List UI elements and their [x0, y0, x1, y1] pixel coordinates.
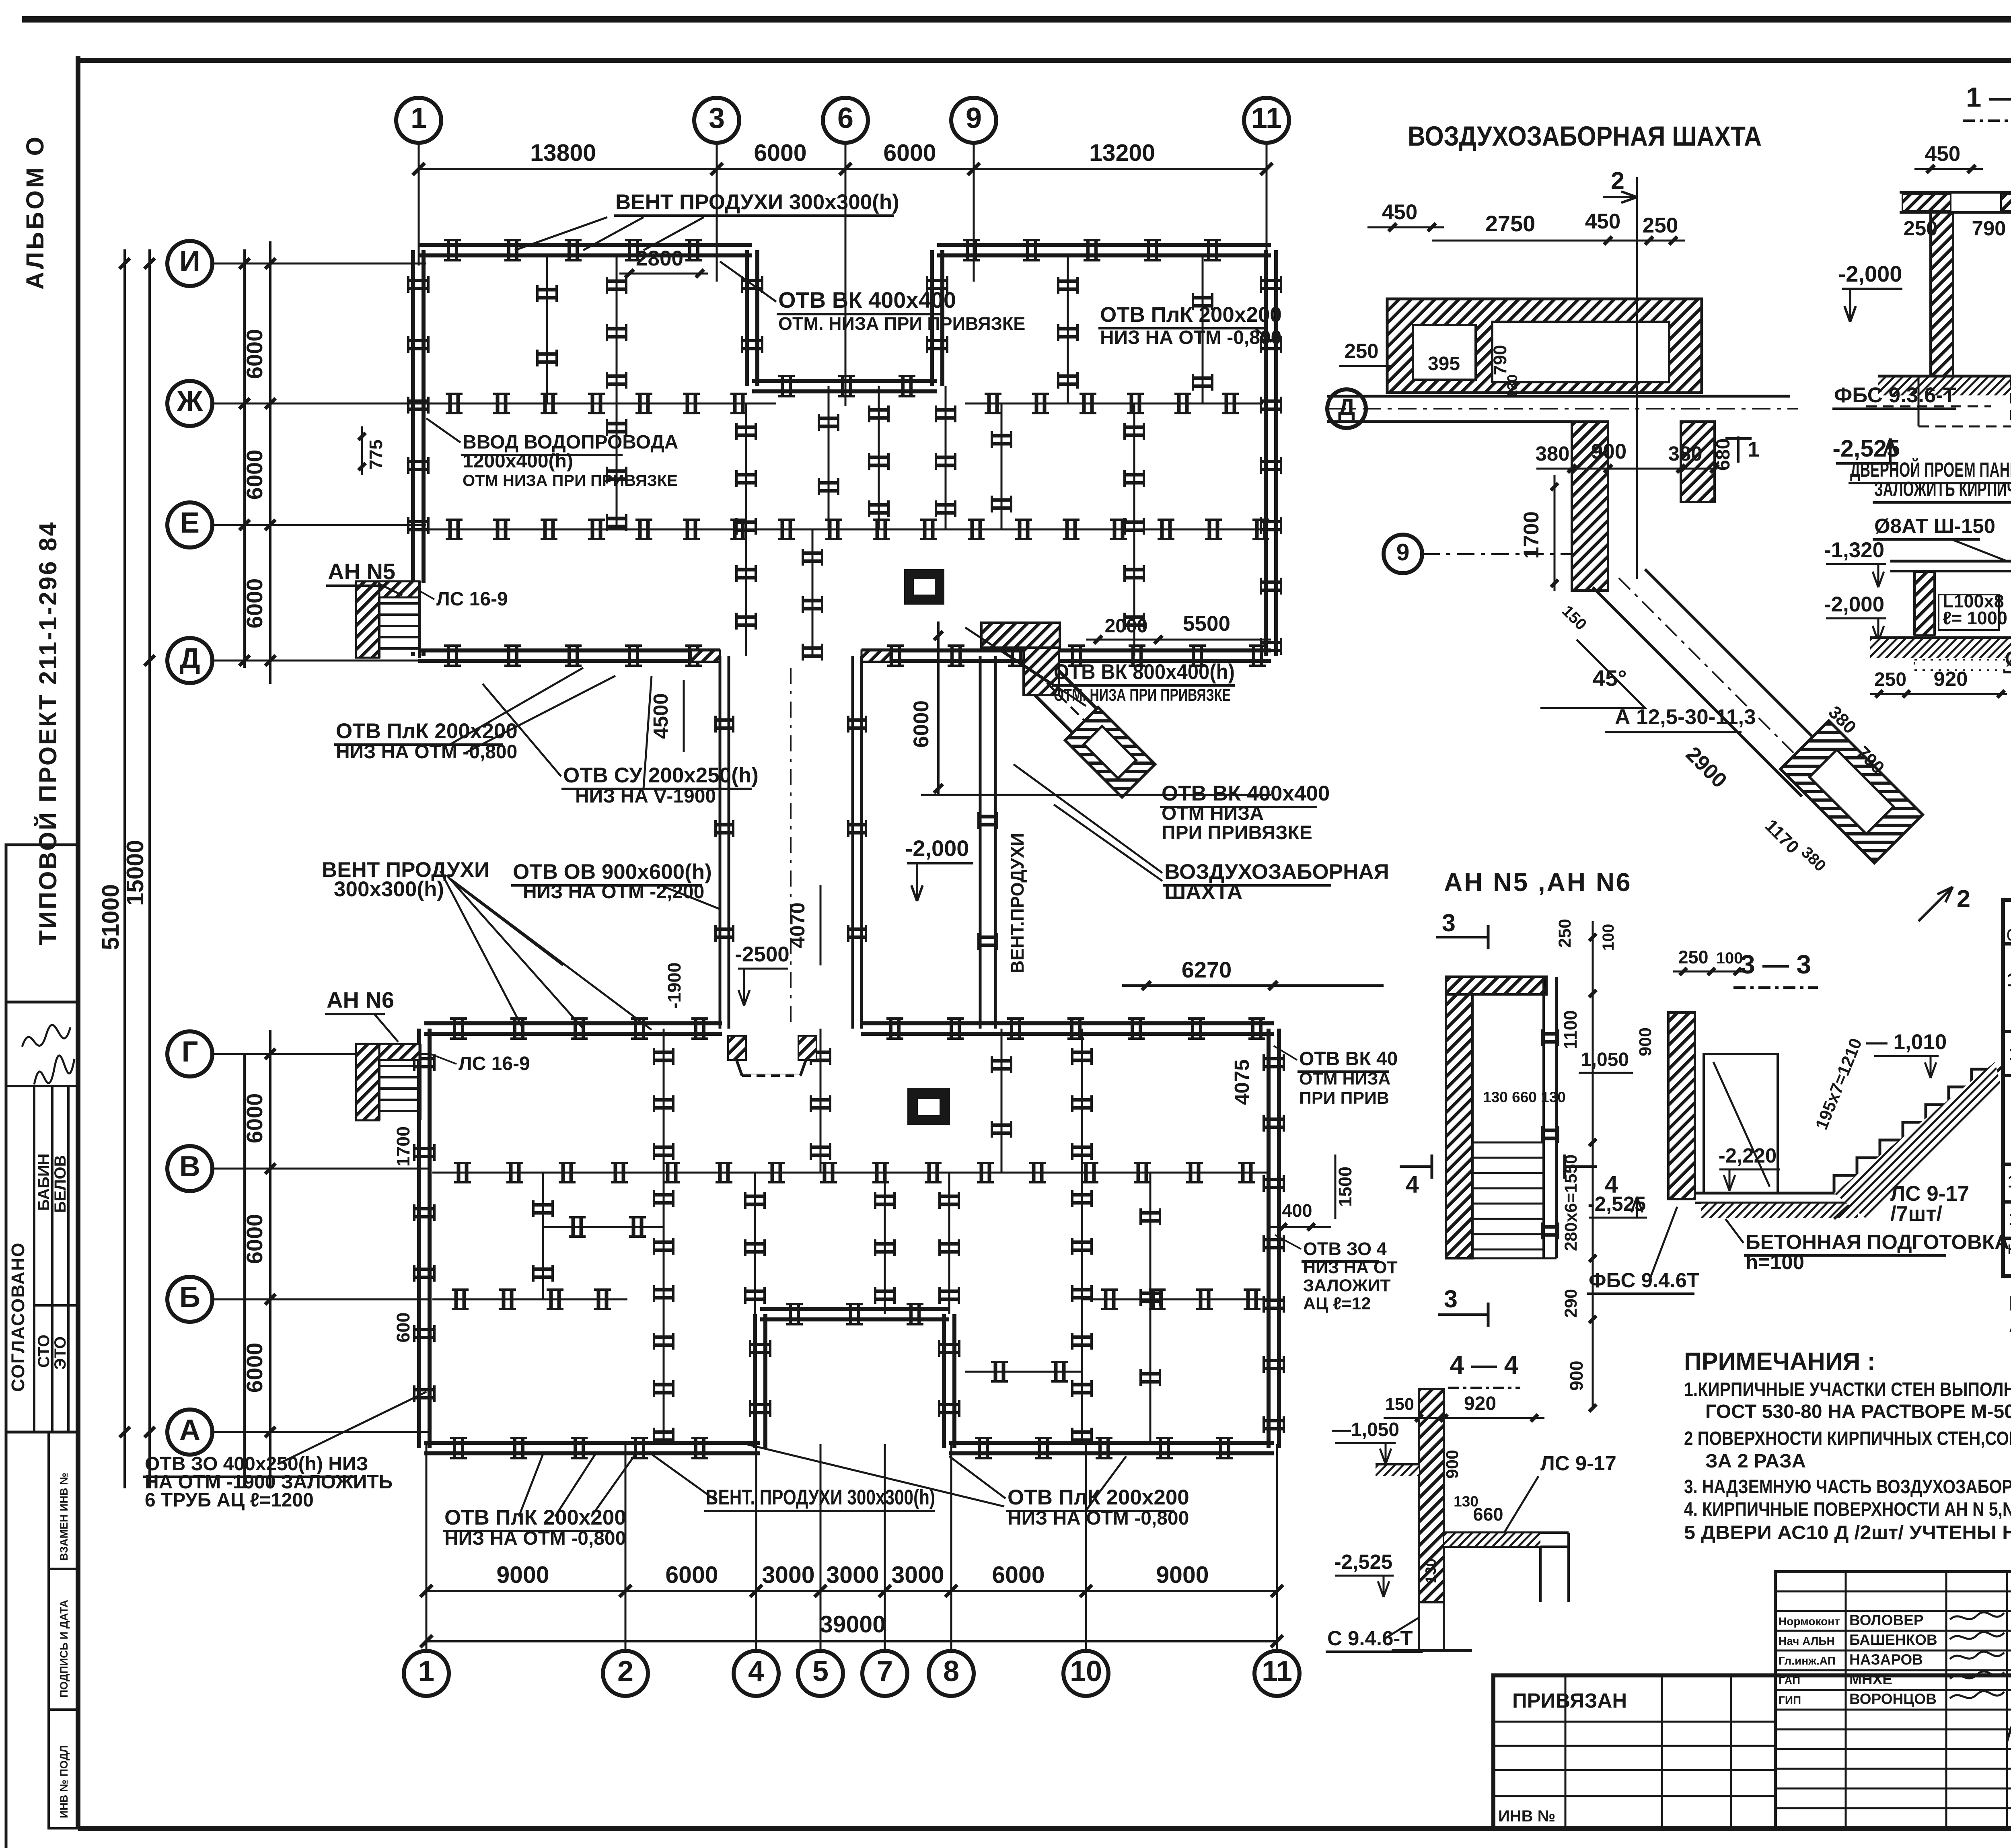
svg-text:600: 600 — [393, 1312, 413, 1342]
section 1-1 ground hatch — [1878, 376, 2011, 395]
lower building interior wall axis V — [432, 1172, 1267, 1174]
svg-text:1.138-10 в.1: 1.138-10 в.1 — [2008, 1172, 2011, 1192]
svg-text:-2,525: -2,525 — [1334, 1550, 1393, 1573]
svg-text:380: 380 — [1668, 442, 1702, 465]
svg-text:НАСТ. ПРОЕКТ: НАСТ. ПРОЕКТ — [2008, 1242, 2011, 1257]
svg-text:-2,000: -2,000 — [1824, 593, 1884, 616]
svg-text:300х300(h): 300х300(h) — [334, 877, 444, 901]
lower building left wall — [417, 1029, 421, 1118]
upper building top notch walls — [745, 250, 749, 386]
svg-text:БАШЕНКОВ: БАШЕНКОВ — [1849, 1632, 1937, 1648]
svg-text:ОТВ ВК 400х400: ОТВ ВК 400х400 — [1162, 782, 1330, 805]
svg-text:ИНВ № ПОДЛ: ИНВ № ПОДЛ — [58, 1745, 70, 1818]
svg-text:1,050: 1,050 — [1581, 1049, 1629, 1070]
svg-text:250: 250 — [1874, 669, 1906, 690]
left dim line upper second — [269, 241, 271, 684]
svg-text:6000: 6000 — [883, 140, 936, 166]
plan dim 6000 vertical mid — [937, 621, 940, 795]
table header row line — [2003, 942, 2011, 946]
svg-text:ОТМ. НИЗА ПРИ ПРИВЯЗКЕ: ОТМ. НИЗА ПРИ ПРИВЯЗКЕ — [778, 313, 1025, 334]
section 1-1 left pier — [1931, 212, 1953, 376]
upper building bottom wall hatched patches — [691, 650, 720, 662]
section 4-4 slab — [1444, 1531, 1569, 1534]
axis circles left and axis lines — [167, 241, 212, 286]
svg-text:9000: 9000 — [1156, 1562, 1209, 1588]
svg-text:1 — 1: 1 — 1 — [1966, 82, 2011, 113]
section 3-3 slab under — [1695, 1192, 1866, 1195]
lower building bottom notch walls — [753, 1314, 757, 1448]
svg-text:ЭТО: ЭТО — [51, 1336, 69, 1370]
svg-text:6000: 6000 — [242, 1093, 267, 1144]
svg-text:1200х400(h): 1200х400(h) — [463, 451, 573, 472]
svg-text:395: 395 — [1428, 353, 1460, 375]
svg-text:А: А — [179, 1414, 200, 1446]
svg-text:6000: 6000 — [242, 578, 267, 629]
svg-text:Б: Б — [179, 1281, 200, 1313]
svg-text:СТО: СТО — [35, 1335, 53, 1368]
svg-text:И: И — [179, 245, 200, 278]
svg-text:ПРИ ПРИВЯЗКЕ: ПРИ ПРИВЯЗКЕ — [1162, 822, 1312, 844]
svg-text:2800: 2800 — [636, 247, 683, 270]
svg-text:9: 9 — [966, 102, 982, 134]
svg-text:2: 2 — [1957, 885, 1970, 912]
svg-text:6000: 6000 — [242, 450, 267, 500]
svg-text:6000: 6000 — [909, 700, 933, 748]
stair section marker 4 right — [1565, 1165, 1597, 1168]
svg-text:1: 1 — [418, 1655, 434, 1687]
svg-text:250: 250 — [1903, 217, 1937, 240]
svg-text:ВЗАМЕН ИНВ №: ВЗАМЕН ИНВ № — [58, 1473, 70, 1561]
staff big signature squiggle — [2007, 1660, 2011, 1742]
upper building dark shaft block — [904, 569, 944, 605]
svg-text:ОТВ ЗО 4: ОТВ ЗО 4 — [1303, 1239, 1387, 1259]
svg-text:ПРИМЕЧАНИЯ :: ПРИМЕЧАНИЯ : — [1684, 1348, 1875, 1375]
svg-text:ЗАЛОЖИТ: ЗАЛОЖИТ — [1303, 1276, 1391, 1295]
svg-text:ОТВ СУ 200х250(h): ОТВ СУ 200х250(h) — [563, 763, 759, 787]
svg-text:250: 250 — [1643, 214, 1678, 237]
svg-text:39000: 39000 — [820, 1611, 886, 1638]
plan shaft hatched top band — [981, 623, 1060, 648]
svg-text:7: 7 — [877, 1655, 893, 1687]
svg-text:790: 790 — [1972, 217, 2006, 240]
bottom dimension line 1 — [426, 1590, 1277, 1592]
svg-text:6000: 6000 — [665, 1562, 718, 1588]
svg-text:1: 1 — [1748, 438, 1759, 461]
axis line 11 top — [1266, 142, 1268, 265]
upper building top wall — [418, 243, 752, 247]
svg-text:ВОРОНЦОВ: ВОРОНЦОВ — [1849, 1691, 1937, 1707]
svg-text:ФБС 9.4.6Т: ФБС 9.4.6Т — [1589, 1269, 1699, 1292]
stair plan steps — [1472, 1142, 1544, 1144]
lower building dark shaft block — [907, 1088, 950, 1125]
svg-text:НИЗ НА ОТМ -0,800: НИЗ НА ОТМ -0,800 — [336, 741, 517, 763]
corridor west wall — [719, 656, 722, 1029]
frame top line — [78, 58, 2011, 63]
svg-text:ГОСТ 530-80 НА РАСТВОРЕ М-50: ГОСТ 530-80 НА РАСТВОРЕ М-50 — [1705, 1401, 2011, 1422]
svg-text:ГИП: ГИП — [1779, 1694, 1801, 1706]
plan shaft end box — [1065, 707, 1155, 797]
svg-text:НИЗ НА ОТ: НИЗ НА ОТ — [1303, 1258, 1398, 1277]
svg-text:6000: 6000 — [242, 1214, 267, 1264]
svg-text:900: 900 — [1636, 1027, 1655, 1056]
svg-text:1.055.1-1: 1.055.1-1 — [2009, 1208, 2011, 1229]
stair section marker 4 left — [1400, 1165, 1432, 1168]
svg-text:920: 920 — [1464, 1393, 1496, 1414]
svg-text:ОБОЗНАЧЕНИЕ: ОБОЗНАЧЕНИЕ — [2007, 926, 2011, 944]
svg-text:1700: 1700 — [393, 1126, 413, 1167]
svg-text:h=100: h=100 — [1746, 1251, 1804, 1274]
svg-text:Нач АЛЬН: Нач АЛЬН — [1779, 1635, 1835, 1647]
svg-text:130 660 130: 130 660 130 — [1483, 1089, 1566, 1105]
plan shaft hatched bend — [1024, 648, 1059, 695]
svg-text:ВВОД ВОДОПРОВОДА: ВВОД ВОДОПРОВОДА — [463, 432, 678, 453]
svg-text:250: 250 — [1555, 919, 1575, 948]
stamp box inv n podl — [49, 1710, 78, 1828]
axis circles bottom — [404, 1651, 449, 1696]
svg-text:4500: 4500 — [649, 693, 672, 739]
shaft vertical duct — [1572, 422, 1608, 591]
svg-text:130: 130 — [1505, 375, 1520, 398]
upper building right wall — [1264, 250, 1268, 656]
svg-text:3000: 3000 — [826, 1562, 879, 1588]
basement long wall — [1890, 560, 2011, 563]
svg-text:ОТВ ВК 40: ОТВ ВК 40 — [1299, 1048, 1398, 1070]
shaft axis circle D — [1327, 389, 1366, 428]
lower building interior wall axis B segments — [432, 1299, 627, 1301]
svg-text:6: 6 — [837, 102, 853, 134]
svg-text:5: 5 — [812, 1655, 829, 1687]
svg-text:ЛС 16-9: ЛС 16-9 — [459, 1053, 530, 1074]
svg-text:3: 3 — [1442, 909, 1456, 936]
svg-text:ИНВ №: ИНВ № — [1498, 1807, 1555, 1825]
svg-text:-2500: -2500 — [735, 943, 790, 966]
svg-text:4 — 4: 4 — 4 — [1450, 1350, 1519, 1379]
svg-text:Е: Е — [180, 507, 199, 539]
svg-text:680: 680 — [1713, 438, 1734, 471]
section 3-3 wall — [1668, 1012, 1695, 1199]
svg-text:ВОЗДУХОЗАБОРНАЯ ШАХТА: ВОЗДУХОЗАБОРНАЯ ШАХТА — [1408, 121, 1762, 152]
axis circles top — [396, 98, 441, 143]
svg-text:Гл.инж.АП: Гл.инж.АП — [1779, 1655, 1836, 1667]
plan vent duct vertical — [979, 656, 982, 1029]
lower building top wall — [424, 1021, 722, 1025]
svg-text:ВЕНТ. ПРОДУХИ 300х300(h): ВЕНТ. ПРОДУХИ 300х300(h) — [706, 1486, 935, 1509]
svg-text:3: 3 — [1444, 1285, 1458, 1313]
svg-text:ОТВ ВК 800х400(h): ОТВ ВК 800х400(h) — [1054, 660, 1235, 684]
svg-text:11: 11 — [1251, 102, 1282, 134]
svg-text:НИЗ НА ОТМ -0,800: НИЗ НА ОТМ -0,800 — [1100, 327, 1281, 348]
svg-text:ОТВ ПлК 200х200: ОТВ ПлК 200х200 — [444, 1506, 626, 1529]
shaft corridor centerline — [1327, 408, 1798, 410]
upper building left wall — [411, 250, 415, 583]
svg-text:В: В — [179, 1150, 200, 1183]
stair section marker 3 bottom — [1438, 1313, 1488, 1316]
svg-text:БЕТОННАЯ ПОДГОТОВКА: БЕТОННАЯ ПОДГОТОВКА — [1746, 1231, 2009, 1253]
axis line 9 top — [973, 169, 975, 282]
svg-text:920: 920 — [1933, 667, 1968, 690]
top dimension line — [419, 168, 1267, 170]
upper building stair AN N5 — [356, 581, 379, 658]
svg-text:380: 380 — [1535, 442, 1569, 465]
svg-text:13200: 13200 — [1089, 140, 1155, 166]
axis line 3 top — [716, 169, 718, 282]
title block staff table — [1775, 1572, 2011, 1828]
corridor east wall — [851, 656, 854, 1029]
svg-text:51000: 51000 — [97, 884, 124, 950]
svg-text:1.КИРПИЧНЫЕ УЧАСТКИ СТЕН ВЫПОЛ: 1.КИРПИЧНЫЕ УЧАСТКИ СТЕН ВЫПОЛНЯТЬ ИЗ ГЛ… — [1684, 1379, 2011, 1400]
svg-text:АН N5: АН N5 — [328, 559, 395, 584]
svg-text:Ø8АТ Ш-150: Ø8АТ Ш-150 — [1874, 514, 1995, 537]
svg-text:290: 290 — [1561, 1289, 1581, 1318]
shaft corridor walls — [1327, 395, 1669, 398]
svg-text:-2,000: -2,000 — [905, 836, 969, 861]
stamp box upper — [6, 845, 78, 1002]
svg-text:6000: 6000 — [242, 329, 267, 379]
svg-text:3 — 3: 3 — 3 — [1740, 949, 1811, 979]
section 1-1 foundation dashed — [1918, 376, 1920, 426]
plan shaft diagonal duct — [1035, 695, 1087, 747]
svg-text:Д: Д — [1338, 394, 1355, 420]
title block main outer — [1493, 1675, 2011, 1828]
sheet top edge line — [22, 16, 2011, 23]
svg-text:250: 250 — [1344, 340, 1378, 362]
svg-text:Ж: Ж — [176, 385, 203, 418]
svg-text:15000: 15000 — [122, 840, 148, 906]
svg-text:-1,320: -1,320 — [1824, 538, 1884, 562]
overall dim lines far left — [123, 249, 126, 1488]
lower building bottom wall — [424, 1441, 760, 1445]
axis line 6 top — [845, 169, 847, 406]
svg-text:ВОЛОВЕР: ВОЛОВЕР — [1849, 1612, 1923, 1628]
lower building entrance funnel — [728, 1036, 814, 1074]
svg-text:АН N5 ,АН N6: АН N5 ,АН N6 — [1444, 868, 1632, 897]
svg-text:3000: 3000 — [762, 1562, 814, 1588]
svg-text:790: 790 — [1490, 345, 1510, 375]
svg-text:НАЗАРОВ: НАЗАРОВ — [1849, 1651, 1923, 1668]
shaft section marker 2 bottom — [1918, 887, 1953, 921]
svg-text:ПОДПИСЬ И ДАТА: ПОДПИСЬ И ДАТА — [58, 1600, 70, 1698]
svg-text:4070: 4070 — [786, 902, 809, 948]
svg-text:2: 2 — [1611, 167, 1624, 194]
svg-text:4. КИРПИЧНЫЕ ПОВЕРХНОСТИ АН: 4. КИРПИЧНЫЕ ПОВЕРХНОСТИ АН N 5,N 6 ОБЛИ… — [1684, 1498, 2011, 1520]
svg-text:ОТМ НИЗА ПРИ ПРИВЯЗКЕ: ОТМ НИЗА ПРИ ПРИВЯЗКЕ — [463, 472, 678, 490]
section 1-1 top slab — [1900, 191, 2011, 194]
svg-text:1700: 1700 — [1520, 511, 1543, 559]
svg-text:11: 11 — [1262, 1655, 1292, 1687]
section 4-4 wall — [1419, 1389, 1444, 1602]
svg-text:3000: 3000 — [891, 1562, 944, 1588]
svg-text:РАСХОД МАТЕРИАЛОВ НА МОНОЛИ: РАСХОД МАТЕРИАЛОВ НА МОНОЛИТНЫЕ УЧАСТКИ … — [2009, 1292, 2011, 1315]
svg-text:4: 4 — [748, 1655, 764, 1687]
svg-text:250: 250 — [1678, 947, 1708, 967]
svg-text:10: 10 — [1070, 1655, 1102, 1687]
svg-text:БЕЛОВ: БЕЛОВ — [51, 1155, 69, 1213]
svg-text:ЗА 2 РАЗА: ЗА 2 РАЗА — [1705, 1451, 1806, 1472]
lower building stair AN N6 — [356, 1044, 379, 1120]
svg-text:АРМАТУРА Ø8АI –4.75КГ ,Ø6АI –1: АРМАТУРА Ø8АI –4.75КГ ,Ø6АI –1.69КГ, БЕТ… — [2009, 1314, 2011, 1337]
svg-text:ОТМ НИЗА: ОТМ НИЗА — [1162, 803, 1264, 824]
svg-text:3: 3 — [709, 102, 725, 134]
svg-text:-1900: -1900 — [664, 962, 685, 1008]
svg-text:— 1,010: — 1,010 — [1866, 1030, 1947, 1054]
svg-text:1500: 1500 — [1335, 1167, 1355, 1207]
svg-text:900: 900 — [1591, 440, 1626, 463]
svg-text:45°: 45° — [1593, 665, 1627, 691]
svg-text:ОТМ НИЗА: ОТМ НИЗА — [1299, 1069, 1390, 1089]
svg-text:130: 130 — [1423, 1558, 1439, 1583]
stamp box vzamen inv — [49, 1432, 78, 1569]
svg-text:НИЗ НА ОТМ -0,800: НИЗ НА ОТМ -0,800 — [444, 1528, 626, 1549]
svg-text:5500: 5500 — [1183, 612, 1230, 636]
shaft detail hatched walls top — [1387, 299, 1702, 393]
svg-text:900: 900 — [1443, 1450, 1462, 1479]
lower building interior verticals — [663, 1029, 665, 1444]
svg-text:6000: 6000 — [242, 1343, 267, 1393]
svg-text:100: 100 — [1600, 924, 1617, 951]
bottom dimension line 2 39000 — [426, 1640, 1277, 1642]
svg-text:Д: Д — [179, 642, 200, 675]
svg-text:1: 1 — [411, 102, 427, 134]
svg-text:Ø6АТ Ш 100: Ø6АТ Ш 100 — [2005, 647, 2011, 670]
svg-text:Г: Г — [182, 1036, 198, 1068]
svg-text:НИЗ НА ∇-1900: НИЗ НА ∇-1900 — [575, 786, 716, 807]
sheet left edge line — [5, 845, 8, 1848]
svg-text:ЛС 16-9: ЛС 16-9 — [436, 589, 508, 610]
svg-text:4: 4 — [1406, 1171, 1419, 1198]
corridor center dash line — [790, 668, 792, 1026]
upper building bottom wall — [418, 648, 720, 652]
svg-text:ЗАЛОЖИТЬ КИРПИЧОМ: ЗАЛОЖИТЬ КИРПИЧОМ — [1874, 477, 2011, 500]
svg-text:А 12,5-30-11,3: А 12,5-30-11,3 — [1615, 705, 1756, 729]
shaft section marker 2 top — [1603, 196, 1637, 198]
axis line 1 top — [418, 169, 420, 265]
svg-text:3. НАДЗЕМНУЮ ЧАСТЬ ВОЗДУХОЗА: 3. НАДЗЕМНУЮ ЧАСТЬ ВОЗДУХОЗАБОРНОЙ ШАХТЫ… — [1684, 1476, 2011, 1498]
svg-text:АЛЬБОМ О: АЛЬБОМ О — [21, 134, 49, 290]
svg-text:1100: 1100 — [1560, 1010, 1581, 1050]
svg-text:1.219.1-3: 1.219.1-3 — [2009, 1043, 2011, 1064]
svg-text:13579-78: 13579-78 — [2007, 969, 2011, 991]
shaft axis circle 9 — [1384, 535, 1422, 573]
svg-text:8: 8 — [943, 1655, 959, 1687]
upper building interior wall on axis Zh — [426, 403, 776, 405]
svg-text:ℓ= 1000: ℓ= 1000 — [1943, 608, 2007, 628]
upper building interior long wall — [426, 529, 1263, 531]
section 3-3 ground slope — [1834, 1066, 2003, 1219]
frame bottom line — [78, 1826, 2011, 1831]
svg-text:ОТВ ПлК 200х200: ОТВ ПлК 200х200 — [1100, 303, 1282, 327]
svg-text:ОТВ ПлК 200х200: ОТВ ПлК 200х200 — [1008, 1486, 1189, 1509]
svg-text:6 ТРУБ АЦ ℓ=1200: 6 ТРУБ АЦ ℓ=1200 — [145, 1490, 314, 1511]
svg-text:-2,220: -2,220 — [1719, 1144, 1777, 1167]
svg-text:2 ПОВЕРХНОСТИ КИРПИЧНЫХ СТЕН: 2 ПОВЕРХНОСТИ КИРПИЧНЫХ СТЕН,СОПРИКАСАЮЩ… — [1684, 1428, 2011, 1449]
upper building interior vertical walls — [616, 257, 618, 529]
svg-text:450: 450 — [1585, 210, 1620, 233]
section 3-3 stair steps — [1834, 1069, 1995, 1193]
left dim line lower — [243, 1054, 246, 1488]
svg-text:ЛС 9-17: ЛС 9-17 — [1540, 1452, 1616, 1475]
svg-text:НИЗ НА ОТМ -0,800: НИЗ НА ОТМ -0,800 — [1008, 1508, 1189, 1529]
svg-text:6000: 6000 — [754, 140, 806, 166]
stamp box podpis i data — [49, 1569, 78, 1710]
svg-text:—1,050: —1,050 — [1332, 1419, 1399, 1441]
svg-text:450: 450 — [1925, 142, 1960, 166]
svg-text:2: 2 — [617, 1655, 633, 1687]
svg-text:130: 130 — [1454, 1493, 1478, 1510]
left dim line upper — [243, 249, 246, 668]
svg-text:Нормоконт: Нормоконт — [1779, 1615, 1840, 1628]
svg-text:ОТВ ОВ 900х600(h): ОТВ ОВ 900х600(h) — [513, 860, 712, 884]
svg-text:ШАХТА: ШАХТА — [1164, 880, 1242, 904]
table outer frame — [2003, 900, 2011, 1276]
svg-text:ОТВ ВК 400х400: ОТВ ВК 400х400 — [778, 287, 956, 313]
svg-text:400: 400 — [1282, 1200, 1312, 1221]
svg-text:6000: 6000 — [992, 1562, 1045, 1588]
svg-text:6270: 6270 — [1182, 957, 1232, 982]
svg-text:ПРИВЯЗАН: ПРИВЯЗАН — [1512, 1689, 1627, 1712]
stair detail section marker 3 top — [1436, 936, 1488, 938]
svg-text:-2,000: -2,000 — [1838, 261, 1902, 286]
svg-text:13800: 13800 — [530, 140, 596, 166]
svg-text:ПРИ ПРИВ: ПРИ ПРИВ — [1299, 1089, 1389, 1108]
svg-text:9000: 9000 — [496, 1562, 549, 1588]
svg-text:4075: 4075 — [1230, 1059, 1253, 1105]
svg-text:150: 150 — [1385, 1395, 1414, 1414]
shaft section marker 1 marks — [1737, 436, 1740, 463]
svg-text:АЦ ℓ=12: АЦ ℓ=12 — [1303, 1294, 1371, 1313]
svg-text:СОГЛАСОВАНО: СОГЛАСОВАНО — [8, 1242, 28, 1392]
lower building right wall — [1267, 1029, 1271, 1448]
svg-text:ФБС 9.3.6-Т: ФБС 9.3.6-Т — [1834, 383, 1956, 407]
svg-text:/7шт/: /7шт/ — [1890, 1202, 1942, 1226]
svg-text:900: 900 — [1566, 1360, 1587, 1391]
shaft diagonal duct — [1593, 587, 1802, 796]
section 4-4 footing — [1419, 1602, 1444, 1650]
basement ground hatch — [1870, 638, 2011, 658]
svg-text:ТИПОВОЙ ПРОЕКТ 211-1-296: ТИПОВОЙ ПРОЕКТ 211-1-296 84 — [34, 521, 62, 945]
svg-text:БАБИН: БАБИН — [35, 1154, 53, 1211]
shaft diagonal end box — [1781, 721, 1923, 863]
svg-text:450: 450 — [1382, 200, 1417, 224]
section 3-3 panel — [1704, 1054, 1778, 1193]
svg-text:100: 100 — [1716, 949, 1743, 967]
svg-text:ВЕНТ.ПРОДУХИ: ВЕНТ.ПРОДУХИ — [1007, 833, 1028, 973]
frame left line — [76, 56, 80, 1828]
svg-text:9: 9 — [1396, 539, 1410, 566]
svg-text:2750: 2750 — [1485, 211, 1536, 236]
stair plan walls — [1446, 977, 1472, 1258]
svg-text:ВЕНТ ПРОДУХИ 300х300(h): ВЕНТ ПРОДУХИ 300х300(h) — [615, 190, 899, 214]
svg-text:2000: 2000 — [1105, 615, 1148, 637]
svg-text:775: 775 — [366, 439, 386, 469]
stamp box soglasovano — [6, 1002, 78, 1432]
stamp signature squiggles — [22, 1025, 70, 1047]
svg-text:АН N6: АН N6 — [327, 987, 394, 1012]
svg-text:5 ДВЕРИ АС10 Д /2шт/ УЧТЕНЫ: 5 ДВЕРИ АС10 Д /2шт/ УЧТЕНЫ НА ЧЕРТЕЖЕ А… — [1684, 1522, 2011, 1543]
